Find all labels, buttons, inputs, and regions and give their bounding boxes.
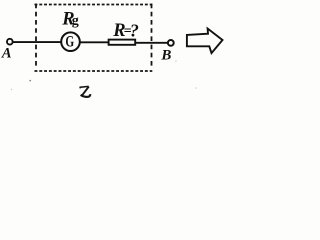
galvanometer G (meter U1) [61,32,80,51]
wire: resistor to terminal B [136,42,168,44]
scan speckles [29,80,31,82]
figure caption 乙 [80,86,90,96]
block arrow (direction marker) [187,29,223,54]
terminal B (right open circle) [168,40,174,46]
wire: terminal A to galvanometer [13,41,61,43]
svg-text:?: ? [130,20,139,40]
resistor R (box style) [109,40,136,45]
svg-text:A: A [1,46,12,62]
svg-text:B: B [160,47,171,63]
wire: galvanometer to resistor [80,41,109,43]
terminal A (left open circle) [7,39,13,45]
svg-text:g: g [72,13,79,28]
svg-text:G: G [65,33,74,50]
dashed enclosure box [35,4,153,71]
